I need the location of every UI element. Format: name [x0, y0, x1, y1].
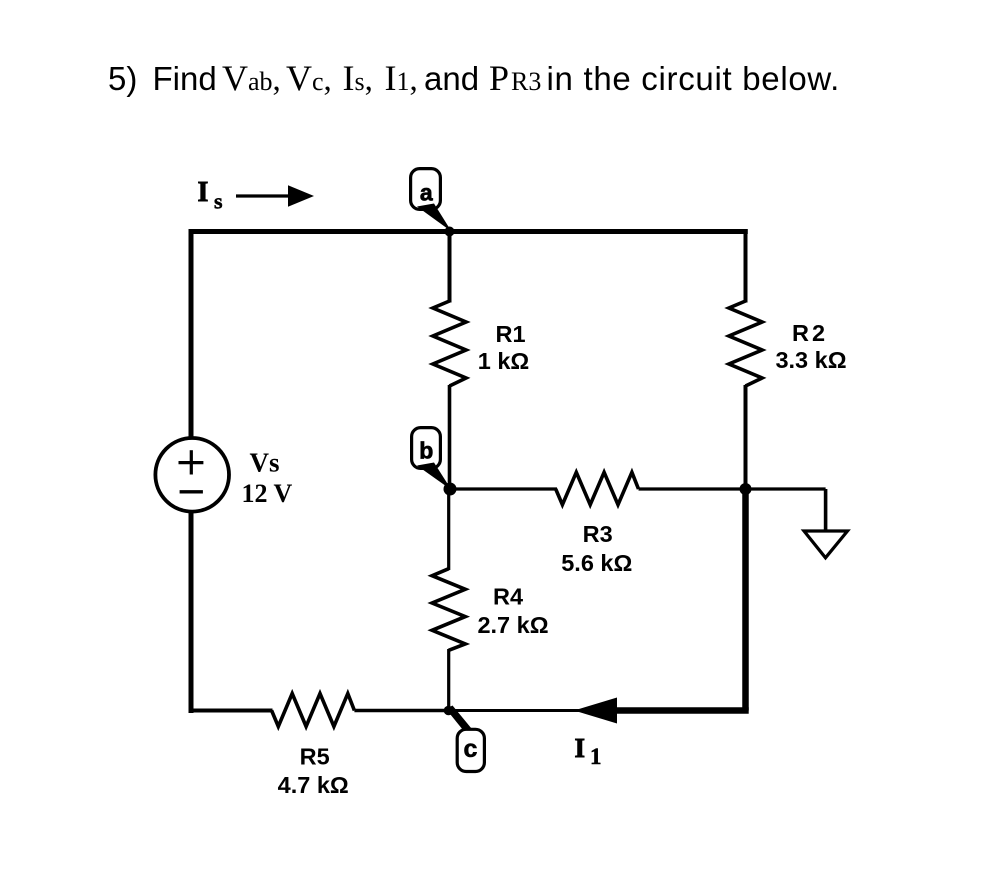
svg-text:in the circuit below.: in the circuit below.	[547, 60, 841, 97]
wire: middle vertical from node a to R1	[448, 232, 452, 303]
wire: ground branch horizontal	[746, 487, 826, 490]
node c callout box	[457, 729, 484, 771]
resistor R5 zigzag	[272, 694, 355, 727]
wire: bottom thick segment (right corner to arrowhead)	[612, 707, 749, 714]
svg-text:R4: R4	[493, 583, 523, 609]
svg-text:4.7 kΩ: 4.7 kΩ	[278, 772, 349, 798]
wire: right vertical lower thick (junction to bottom corner)	[742, 489, 749, 711]
resistor R4 zigzag	[432, 569, 465, 651]
node a pointer wedge	[417, 204, 452, 232]
junction dot node c	[444, 706, 454, 716]
title text	[108, 60, 840, 97]
resistor R3 zigzag	[556, 472, 639, 504]
wire: right vertical from R2 to ground junction	[744, 385, 748, 490]
junction dot right rail	[740, 483, 752, 495]
I1 arrowhead pointing left	[574, 698, 617, 724]
Is arrowhead	[288, 185, 314, 207]
svg-text:Vc,: Vc,	[286, 58, 332, 98]
node b callout box	[412, 428, 441, 469]
resistor R1 zigzag	[433, 301, 466, 386]
svg-text:R3: R3	[583, 521, 613, 547]
wire: bottom left segment (corner to R5)	[191, 709, 273, 713]
svg-text:R1: R1	[495, 321, 525, 347]
svg-text:Vs: Vs	[250, 448, 280, 478]
node b pointer wedge	[417, 463, 452, 491]
wire: bottom segment R5 to node c	[354, 709, 450, 713]
wire: middle vertical from R1 to node b	[448, 385, 452, 490]
svg-text:1: 1	[590, 744, 602, 769]
wire: bottom thin segment node c to I1 arrowhead	[449, 709, 591, 712]
resistor R2 zigzag	[729, 301, 762, 386]
wire: middle vertical node b to R4	[447, 489, 450, 570]
svg-text:1 kΩ: 1 kΩ	[478, 348, 530, 374]
wire: left vertical lower (Vs bottom to bottom corner)	[189, 510, 194, 713]
svg-text:Find: Find	[153, 60, 217, 97]
svg-text:c: c	[464, 735, 478, 763]
svg-text:R5: R5	[300, 744, 330, 770]
wire: left vertical upper (top corner down to Vs top)	[189, 229, 194, 440]
Vs plus sign	[190, 450, 193, 474]
svg-text:3.3 kΩ: 3.3 kΩ	[775, 347, 846, 373]
Is arrow shaft	[236, 194, 293, 197]
svg-text:5.6 kΩ: 5.6 kΩ	[561, 550, 632, 576]
svg-text:R2: R2	[792, 320, 828, 346]
ground symbol triangle	[804, 531, 848, 558]
wire: R3 branch left segment from node b	[450, 487, 557, 490]
wire: R3 branch right segment to right rail	[639, 487, 748, 490]
svg-text:2.7 kΩ: 2.7 kΩ	[477, 612, 548, 638]
wire: ground branch vertical drop	[824, 489, 828, 530]
svg-text:s: s	[214, 189, 223, 214]
wire: right vertical upper (top corner to R2)	[744, 229, 748, 302]
svg-text:I: I	[198, 177, 209, 208]
svg-text:I1,: I1,	[385, 58, 418, 98]
node a callout box	[411, 169, 441, 210]
voltage source Vs circle	[155, 438, 229, 512]
Vs minus sign	[180, 490, 203, 493]
wire: top horizontal from left corner to right corner	[189, 229, 748, 234]
junction dot node b	[444, 483, 457, 496]
junction dot node a	[445, 227, 455, 237]
svg-text:I: I	[575, 733, 586, 763]
node c pointer wedge	[446, 706, 472, 733]
svg-text:12 V: 12 V	[242, 479, 293, 508]
svg-text:PR3: PR3	[489, 58, 541, 98]
svg-text:5): 5)	[108, 60, 137, 97]
svg-text:Is,: Is,	[343, 58, 373, 98]
svg-text:b: b	[419, 438, 433, 464]
svg-text:and: and	[424, 60, 479, 97]
wire: middle vertical R4 to node c	[447, 649, 450, 711]
svg-text:Vab,: Vab,	[222, 58, 281, 98]
svg-text:a: a	[420, 180, 433, 206]
